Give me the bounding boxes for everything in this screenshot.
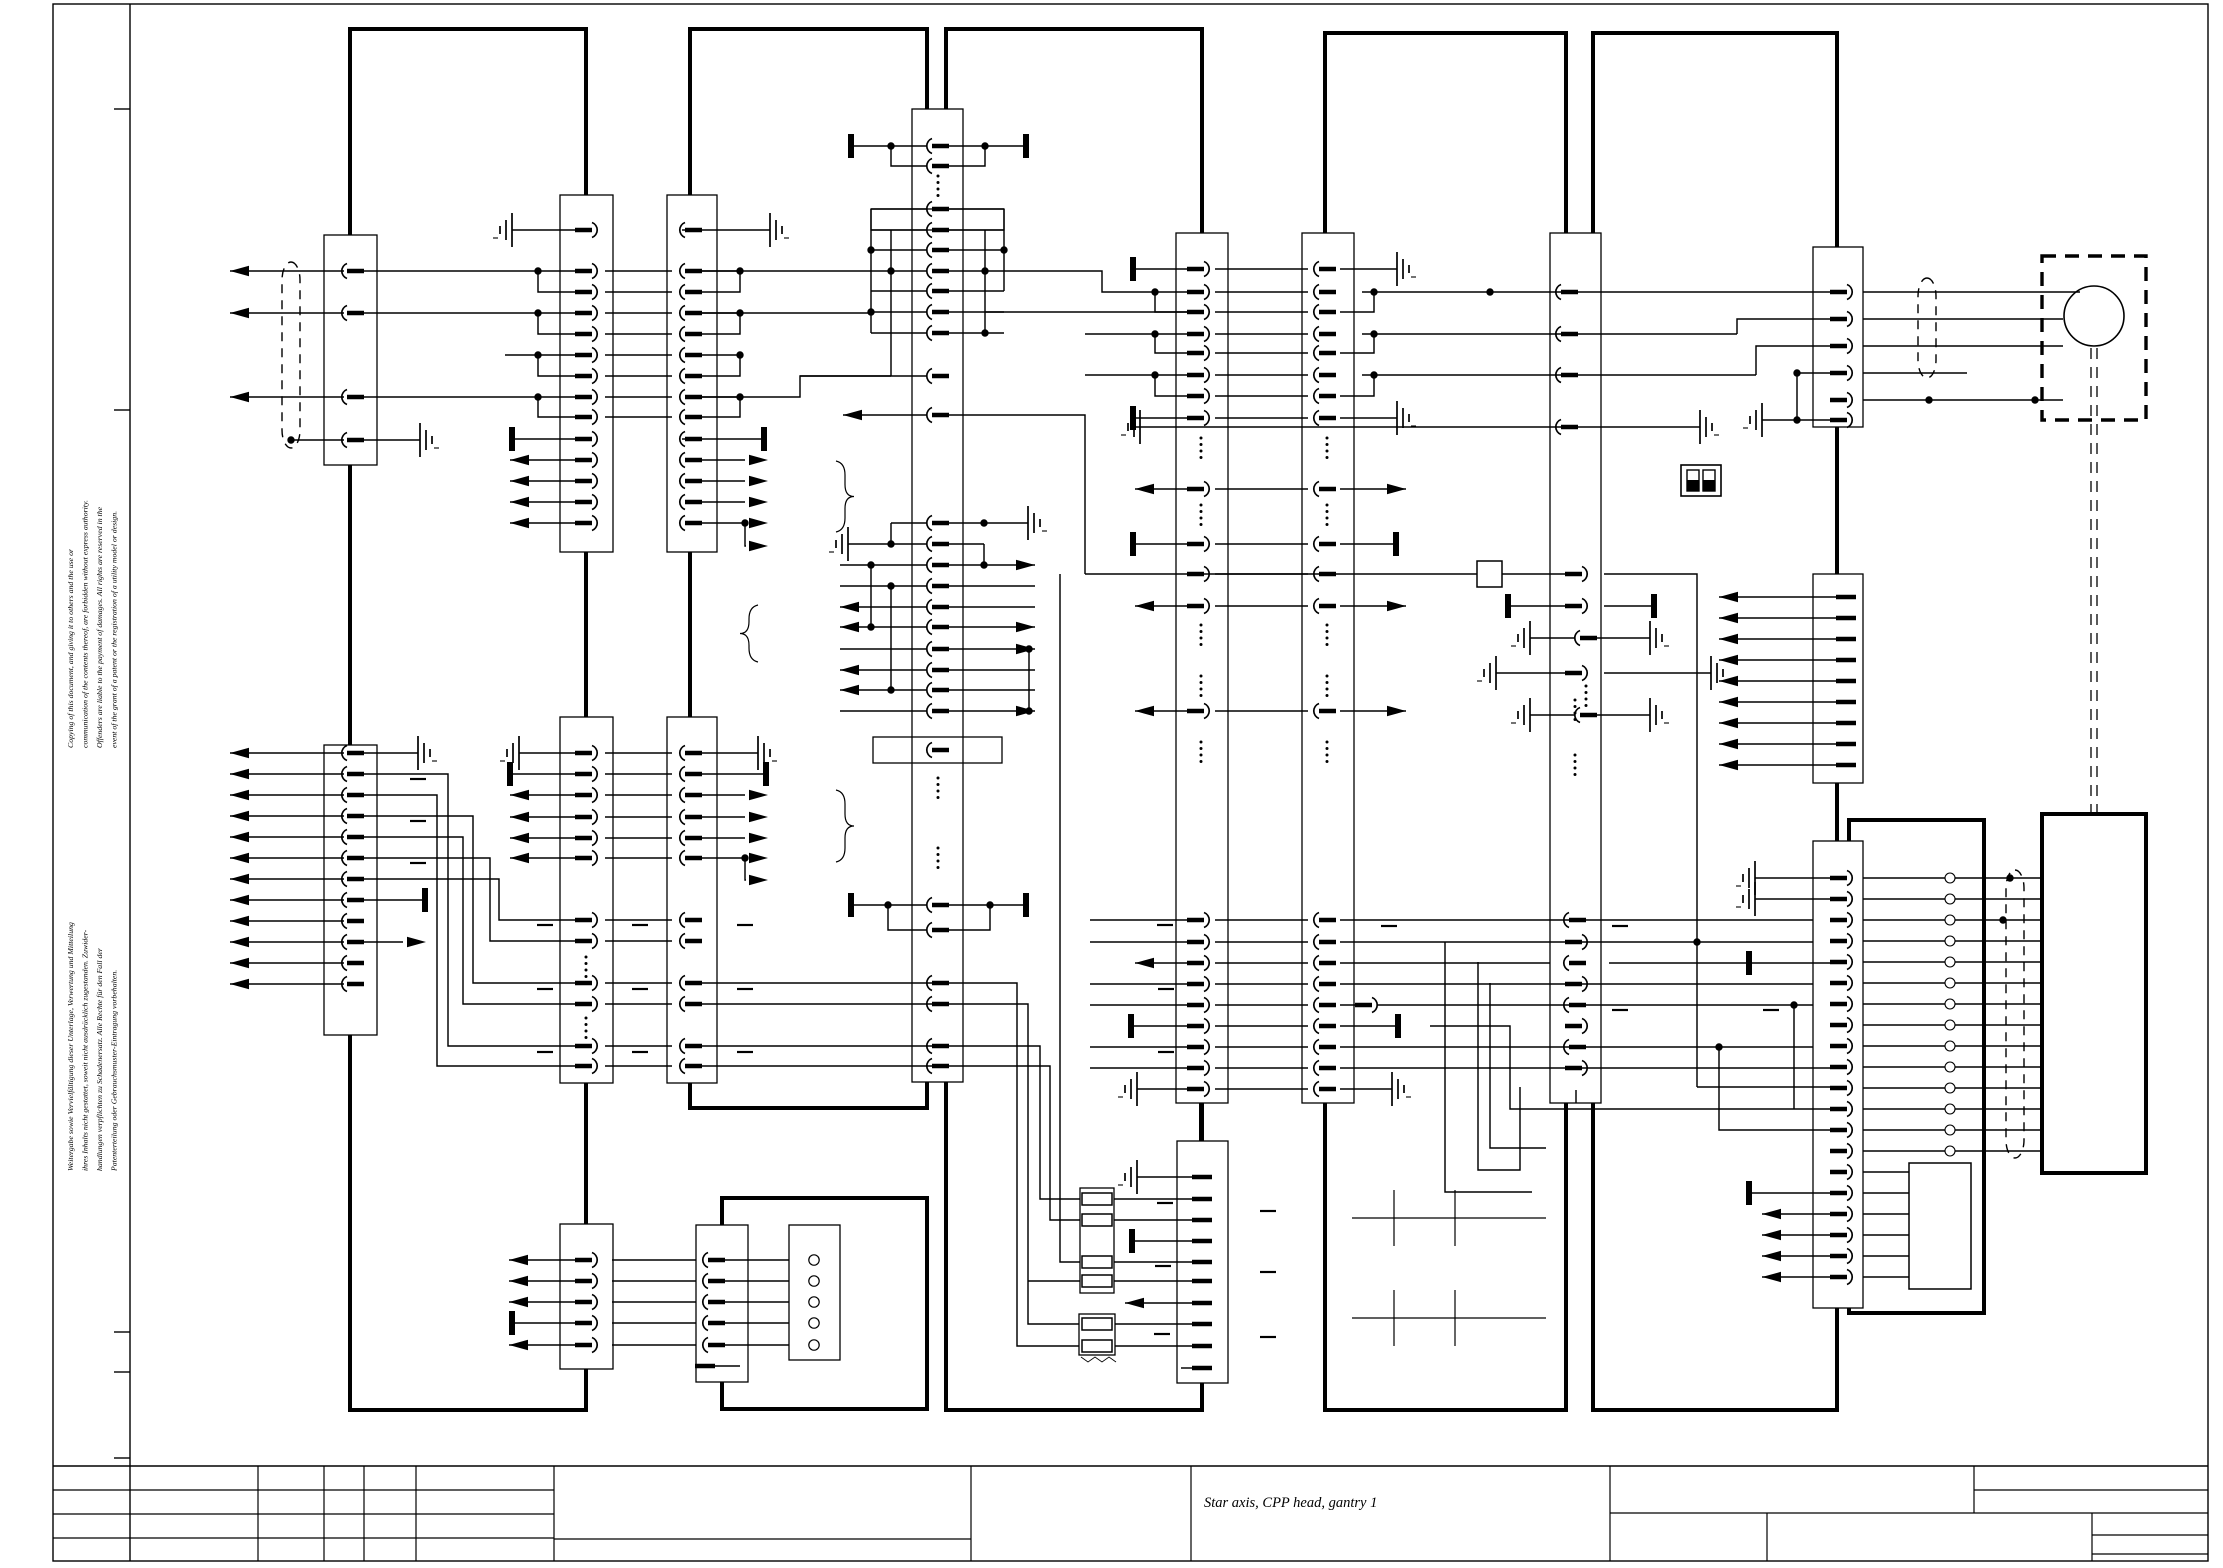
connector X62 ground rows: [1736, 861, 1832, 916]
relay element K9 (center rectangle): [873, 737, 1002, 869]
bus wire row 942 with drop: [1340, 941, 1813, 943]
motor phase wire U: [1362, 291, 1832, 293]
connector X20/X21 shield row with grounds: [493, 213, 789, 247]
connector X50 lower pins: [1564, 699, 1587, 1104]
connector X30 header rows: [848, 134, 1029, 197]
bus wire row 1026 drop to 1110: [1430, 1026, 1837, 1109]
margin copyright text (german): [66, 922, 119, 1172]
connector X40 housing: [1176, 233, 1228, 1103]
DIP switch S2: [1681, 465, 1721, 496]
connector X42 pins: [1118, 1103, 1276, 1368]
wire W1 with arrow: [230, 270, 344, 272]
control element A2: [1909, 1163, 1971, 1289]
connector X42 housing (below X40): [1177, 1141, 1228, 1383]
connector X40/X41 shield row 418: [1130, 401, 1416, 459]
wire W2 with arrow: [230, 312, 344, 314]
connector X11 housing: [324, 745, 377, 1035]
bus wire row 1068: [1340, 1067, 1837, 1069]
connector X30 row 415 with arrow and drop: [843, 408, 1085, 575]
wire W25: [1028, 1280, 1080, 1282]
svg-text:Copying of this document, and: Copying of this document, and giving it …: [66, 548, 75, 748]
connector X22 housing: [560, 717, 613, 1083]
cable shield S4 (dashed): [2006, 870, 2024, 1158]
connector X20 housing: [560, 195, 613, 552]
wire W23: [700, 1066, 1080, 1220]
connector X62 housing: [1813, 841, 1863, 1308]
motor phase wire V: [1362, 333, 1737, 335]
connector X50 housing: [1550, 233, 1601, 1103]
connector X22/X23 rows group 1: [500, 736, 777, 885]
test point cross group 2: [1352, 1290, 1546, 1346]
module box K3: [946, 29, 1202, 1410]
wire row 312 to X40: [985, 311, 1194, 313]
resistor bank R1-R4: [1080, 1188, 1194, 1293]
cable shield S1 (dashed): [282, 262, 300, 448]
module box K2: [690, 29, 927, 1108]
svg-text:Star axis, CPP head, gantry 1: Star axis, CPP head, gantry 1: [1204, 1495, 1377, 1511]
long wire rows 271/313/397 from X21 to X30: [700, 270, 871, 272]
phase wire U takeoff: [1004, 271, 1194, 292]
X11 wire marks: [410, 778, 426, 780]
connector X60 pin rows: [1743, 285, 2080, 438]
connector X40/X41 arrow row 606: [1135, 599, 1406, 647]
connector X30 arrow group: [840, 558, 1035, 719]
connector X30 lower pins on feeder rows: [927, 976, 949, 1074]
bus wire row 920: [1340, 919, 1813, 921]
connector X40/X41 arrow row 489: [1135, 482, 1406, 527]
wire W22: [700, 1046, 1080, 1199]
X20/X21 spare wires with arrows: [510, 453, 768, 552]
motor M1 (dashed enclosure): [2042, 256, 2146, 420]
margin copyright text (english): [66, 500, 119, 748]
connector X30 row 376: [927, 369, 932, 384]
module box K8 (right terminal unit): [2042, 814, 2146, 1173]
wire W3 with arrow: [230, 396, 344, 398]
connector X61 rows with harness arrows: [1719, 592, 1856, 770]
connector X30 housing (center tall): [912, 109, 963, 1082]
svg-text:event of the grant of a patent: event of the grant of a patent or the re…: [110, 511, 119, 748]
ground rows cluster: [1477, 621, 1730, 732]
connector X20/X21 crossover pairs: [362, 264, 744, 425]
connector X40/X41 ground row 1089: [1118, 1072, 1411, 1106]
connector X50 pins on phase rows: [1486, 285, 1578, 383]
svg-text:Patenterteilung oder Gebrauchs: Patenterteilung oder Gebrauchsmuster-Ein…: [110, 970, 119, 1172]
motor phase wire W: [1362, 374, 1756, 376]
svg-text:ihres Inhalts nicht gestattet,: ihres Inhalts nicht gestattet, soweit ni…: [81, 929, 90, 1171]
bus wire row 962 terminated: [1340, 962, 1550, 964]
connector X10 housing: [324, 235, 377, 465]
module box K5: [1593, 33, 1837, 1410]
connector X40/X41 through row 574: [1187, 567, 1336, 582]
module box K4: [1325, 33, 1566, 1410]
cable group brace B1: [836, 461, 854, 532]
connector X11 pins and harness arrows: [230, 746, 364, 992]
connector X60 housing (motor plug): [1813, 247, 1863, 427]
module box K1 (left): [350, 29, 586, 1410]
bus wire row 1047: [1340, 1046, 1813, 1048]
wire W24 (drop from adapter row): [1060, 574, 1080, 1262]
X62 termination row 962: [1746, 951, 1752, 975]
bus wire row 1026 terminated: [1340, 1025, 1396, 1027]
resistor bank R5a/R5b: [1079, 1314, 1194, 1362]
svg-text:communication of the contents: communication of the contents thereof, a…: [81, 500, 90, 748]
connector X40/X41 arrow row 711: [1135, 675, 1406, 764]
connector X40/X41 crossover pairs: [1085, 285, 1378, 404]
connector X30 crossover group: [867, 202, 1007, 377]
nested loop hooks: [1445, 942, 1546, 1192]
X20/X21 terminated spare pair: [512, 438, 578, 440]
connector X24/X25 rows and lamp terminals: [509, 1253, 819, 1367]
resolver feedback cable (dashed pair): [2091, 348, 2097, 814]
bridge wires W10 (X11 to X22): [362, 774, 577, 1066]
bus wire row 1005 with inline pin: [1340, 1004, 1360, 1006]
cable group brace B3: [836, 790, 854, 862]
X11 shield to ground: [362, 752, 418, 754]
connector X30 terminated row 905-930: [848, 893, 1029, 938]
connector X24 housing: [560, 1224, 613, 1369]
connector X25 housing: [696, 1225, 748, 1382]
connector X22/X23 rows group 2: [537, 913, 753, 1074]
connector X21 housing: [667, 195, 717, 552]
wire W4 shield drain to ground: [291, 439, 344, 441]
connector X40/X41 lower bus rows: [1090, 913, 1336, 1076]
module box K7 (bottom right unit): [1849, 820, 1984, 1313]
terminal block X26 (lamp outputs): [789, 1225, 840, 1360]
X11 terminated wire: [362, 899, 422, 901]
connector X40/X41 shield row 269: [1130, 252, 1416, 286]
test point cross group 1: [1352, 1190, 1546, 1246]
wire W20 (X23 row to feeder): [700, 983, 1079, 1346]
svg-text:Offenders are liable to the pa: Offenders are liable to the payment of d…: [95, 506, 104, 748]
terminated pair row 606: [1505, 594, 1657, 618]
connector X62 rows to terminal circles: [1830, 871, 2042, 1159]
bus wire row 984: [1340, 983, 1813, 985]
wire W21: [700, 1004, 1079, 1324]
cable group brace B2: [740, 605, 758, 662]
ground link row 427: [1121, 410, 1719, 444]
connector X61 housing: [1813, 574, 1863, 783]
svg-text:handlungen verpflichten zu Sch: handlungen verpflichten zu Schadenersatz…: [95, 947, 104, 1171]
adapter element A1 (square): [1085, 561, 1697, 1087]
svg-text:Weitergabe sowie Vervielfältig: Weitergabe sowie Vervielfältigung dieser…: [66, 922, 75, 1171]
connector X23 housing: [667, 717, 717, 1083]
title block grid: [53, 1466, 2208, 1561]
connector X30 shield rows 523-544: [829, 506, 1047, 565]
connector X41 housing: [1302, 233, 1354, 1103]
connector X62 lower rows to control unit: [1746, 1165, 1909, 1285]
cable shield S3 (dashed): [1918, 278, 1936, 378]
X11 outgoing wire arrow: [362, 941, 403, 943]
module box K6 (bottom left unit): [722, 1198, 927, 1409]
frame fold tick marks: [114, 109, 130, 1458]
connector X40/X41 terminated row 544: [1130, 532, 1399, 556]
